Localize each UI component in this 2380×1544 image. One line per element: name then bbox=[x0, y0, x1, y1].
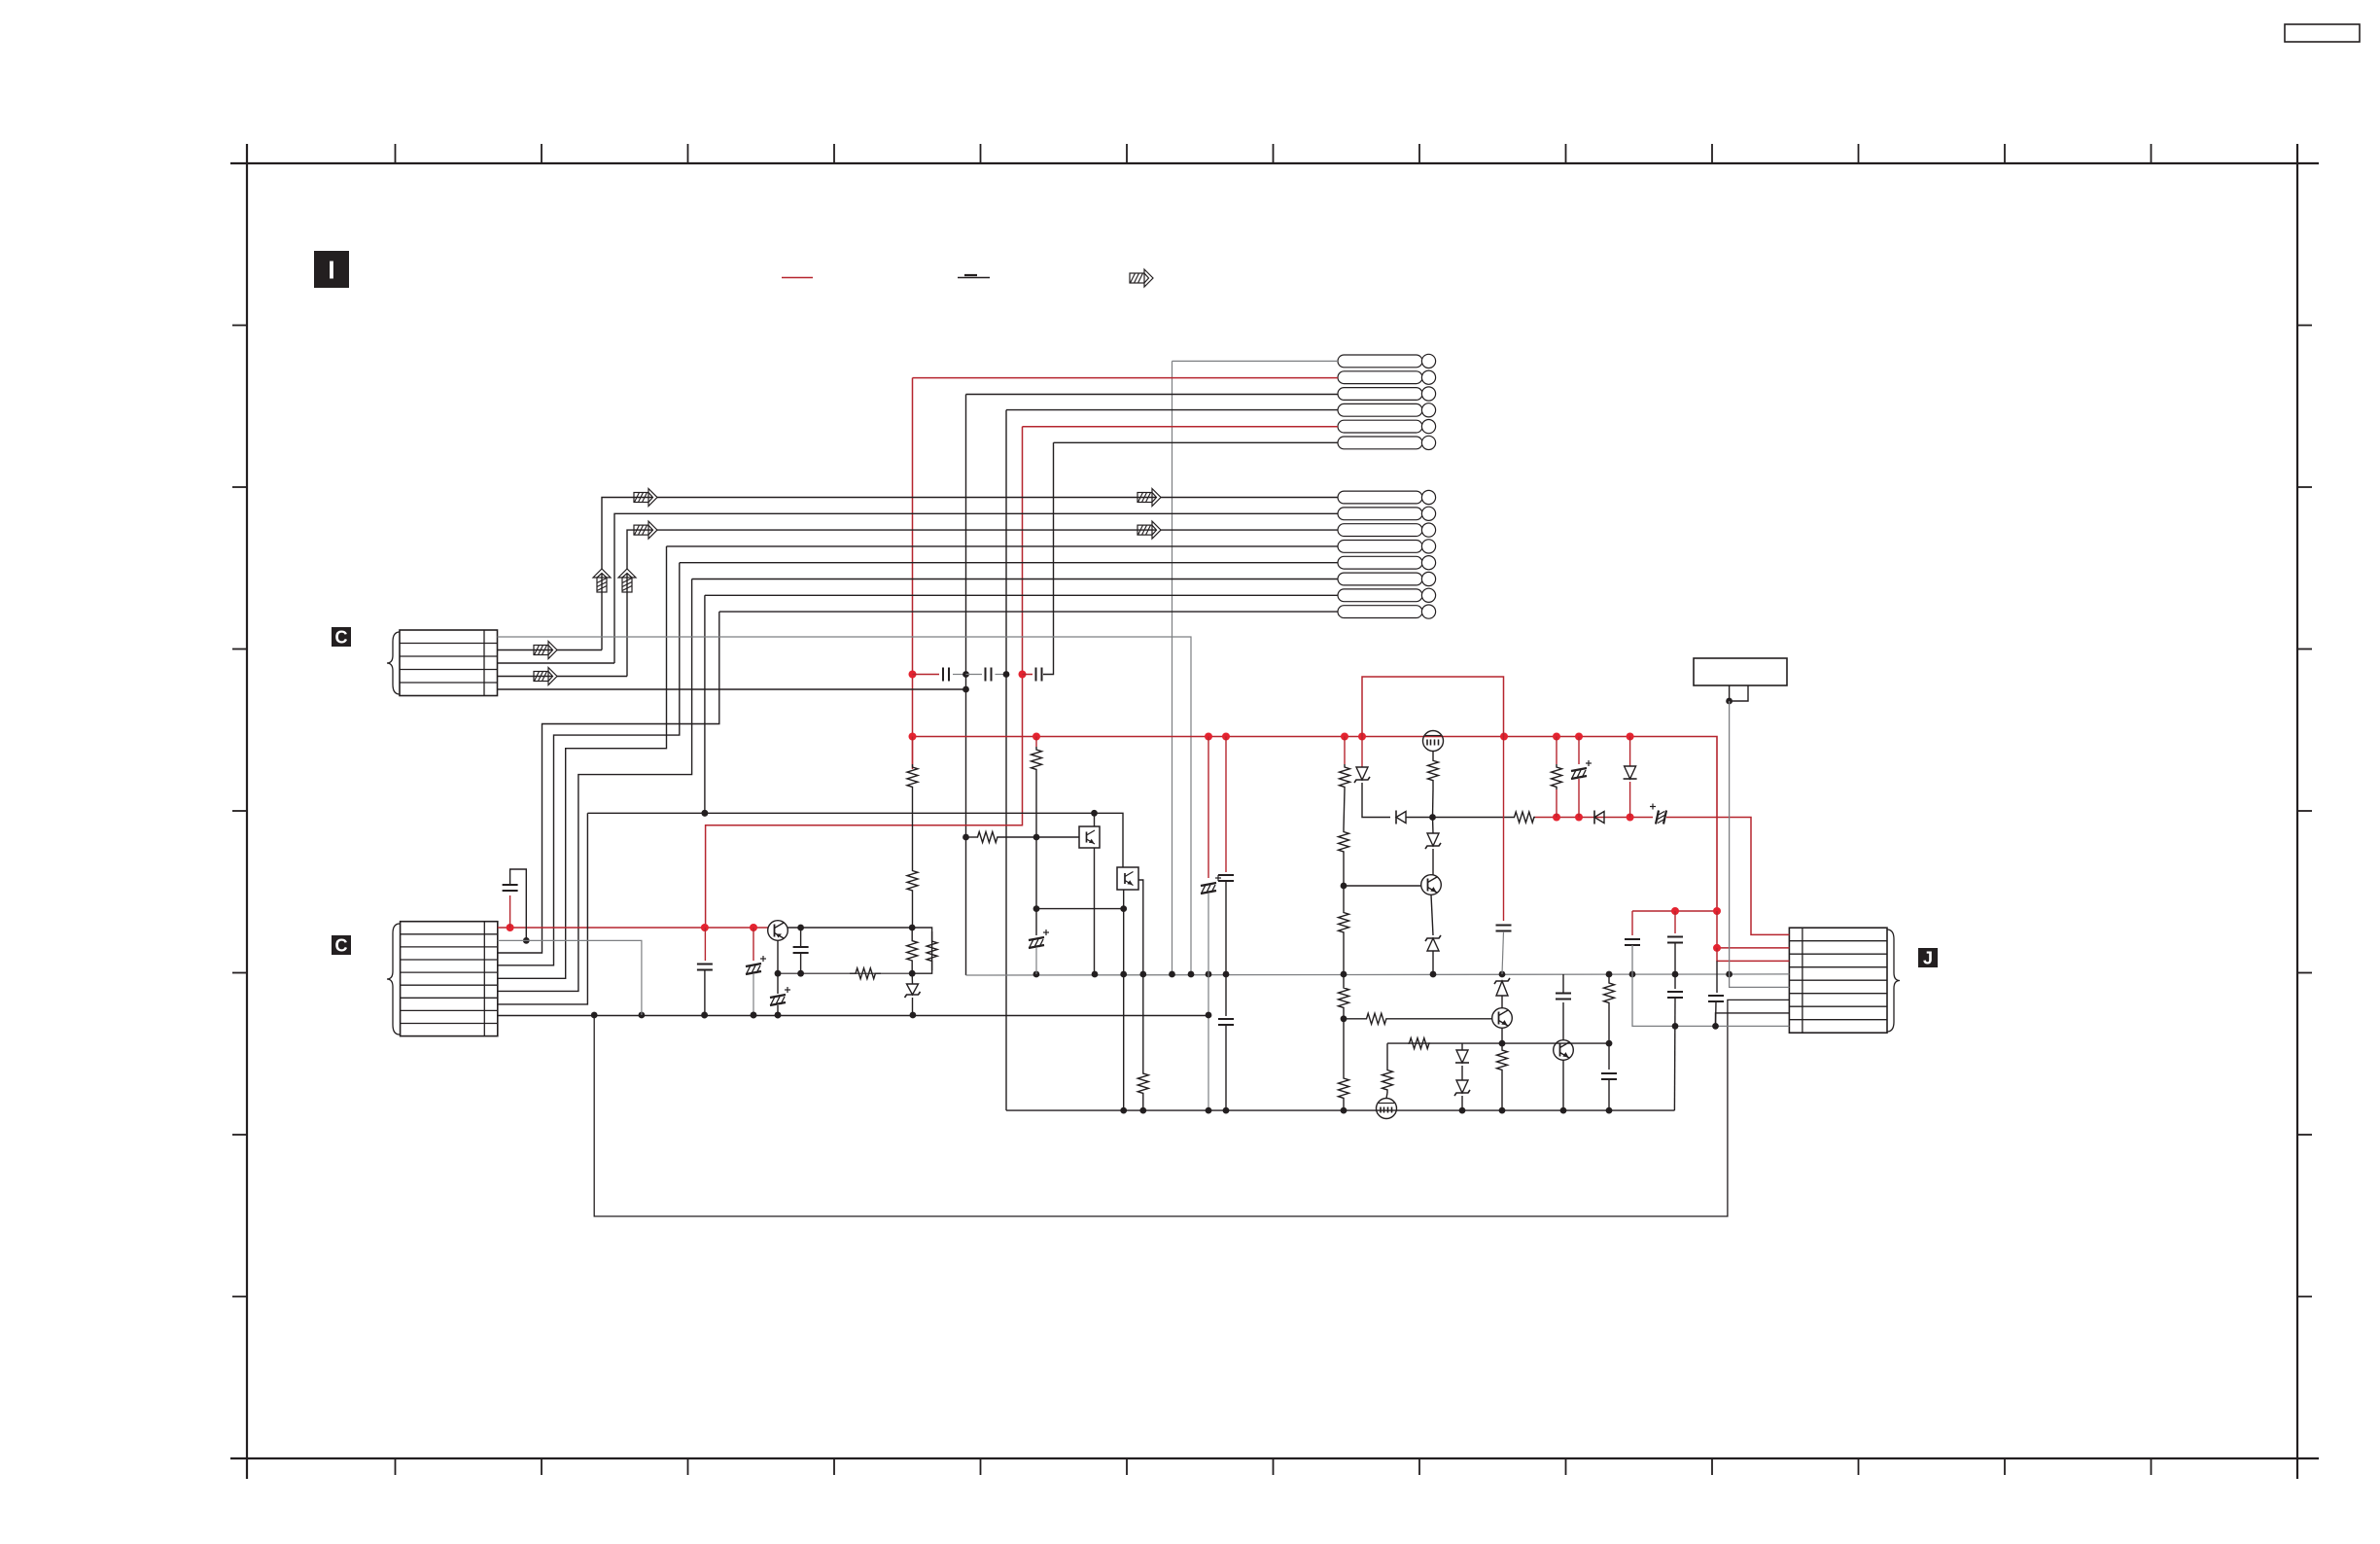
pill terminal group1 pin5 bbox=[1338, 420, 1436, 434]
arrow on g2p3 wire right bbox=[1137, 521, 1161, 539]
wire ladder e bbox=[1343, 974, 1345, 984]
junction gate rail b bbox=[1575, 814, 1583, 822]
wire gate rail red bbox=[1535, 817, 1653, 819]
bus junction 5 bbox=[1358, 733, 1366, 741]
wire cap C-e top bbox=[800, 928, 802, 947]
junction cap C-e bottom bbox=[797, 970, 804, 977]
wire ecap C-i bottom bbox=[1035, 948, 1037, 974]
wire pill g2p8 drop bbox=[498, 612, 719, 953]
wire bus to R1 (red) bbox=[912, 737, 914, 765]
electrolytic capacitor C-j bbox=[1201, 875, 1221, 894]
wire box2 bottom low bbox=[1123, 974, 1125, 1110]
arrow on g2p1 wire right bbox=[1137, 489, 1161, 507]
wire ecap C-h bottom bbox=[752, 974, 754, 1015]
wire x1655 low bbox=[1608, 1043, 1610, 1070]
red power bus bbox=[913, 737, 1718, 912]
junction gnd rail e bbox=[775, 1012, 782, 1019]
bottom rail bbox=[1006, 1109, 1674, 1111]
junction x1066 y935 bbox=[1033, 905, 1040, 912]
photocoupler transistor U1b bbox=[1117, 867, 1138, 890]
wire zener D1 lead bbox=[911, 973, 913, 984]
wire gate rail a bbox=[1406, 817, 1513, 819]
zener diode D2 bbox=[1354, 767, 1370, 783]
junction x1504 bottom bbox=[1459, 1107, 1466, 1114]
connector label C1 bbox=[332, 627, 351, 647]
wire box1 emitter bbox=[1094, 848, 1096, 974]
wire Q5 top bbox=[1562, 1002, 1564, 1040]
wire pill g1p4 vertical bbox=[1005, 410, 1007, 1111]
resistor R16 bbox=[1552, 764, 1562, 790]
junction ecap C-f bottom bbox=[775, 1012, 782, 1019]
wire T1 collector rail bbox=[787, 928, 931, 973]
gnd rail y1044 bbox=[498, 1015, 1208, 1017]
wire pill g2p4 drop bbox=[498, 546, 667, 978]
wire box pin a bbox=[1729, 685, 1731, 701]
bus tap x1066 bbox=[1032, 733, 1040, 741]
gray rail junction n bbox=[1672, 971, 1679, 978]
wire ladder b bbox=[1343, 855, 1345, 886]
wire box2 right bbox=[1138, 880, 1143, 974]
wire R16 low (red) bbox=[1556, 790, 1557, 818]
junction T1 emitter bbox=[775, 970, 782, 977]
arrow on C1 pin2 wire bbox=[534, 642, 557, 659]
diode D3 bbox=[1396, 811, 1406, 825]
transistor Q4 bbox=[1492, 1008, 1513, 1029]
wire ladder f bbox=[1343, 1011, 1345, 1019]
wire C-g bottom bbox=[704, 970, 706, 1015]
resistor R14 bbox=[1339, 1074, 1349, 1102]
pill terminal group1 pin3 bbox=[1338, 387, 1436, 401]
border frame bottom bbox=[230, 1457, 2319, 1459]
capacitor C-a bbox=[943, 668, 949, 682]
connector label C2 bbox=[332, 935, 351, 955]
pill terminal group2 pin7 bbox=[1338, 588, 1436, 602]
junction red pill5 riser cap bbox=[1019, 671, 1027, 679]
capacitor C-r bbox=[1625, 939, 1640, 945]
capacitor C-k bbox=[1218, 875, 1234, 881]
gray rail junction g bbox=[1206, 971, 1212, 978]
pill terminal group2 pin4 bbox=[1338, 540, 1436, 553]
capacitor C-d bbox=[503, 885, 518, 891]
wire cap C-e bot bbox=[800, 953, 802, 973]
gray rail junction k bbox=[1499, 971, 1506, 978]
wire ecap riser (red) bbox=[752, 928, 754, 961]
capacitor C-p bbox=[1556, 994, 1571, 1000]
junction gate rail mosfet chain bbox=[1429, 814, 1436, 821]
wire pill g1p5 (red) bbox=[1023, 426, 1339, 428]
capacitor C-b bbox=[986, 668, 992, 682]
wire cap loop bbox=[509, 895, 511, 928]
wire C-u low bbox=[1715, 1001, 1718, 1026]
junction C2p1 cap loop bbox=[507, 924, 514, 931]
gray rail junction b bbox=[1092, 971, 1099, 978]
junction red pill7 riser bbox=[701, 924, 709, 931]
bus junction 9 bbox=[1627, 733, 1634, 741]
svg-text:J: J bbox=[1923, 948, 1933, 967]
connector C1 bbox=[400, 630, 498, 696]
wire ladder h bbox=[1343, 1102, 1345, 1110]
resistor R8 bbox=[977, 832, 997, 843]
wire cap loop top bbox=[510, 869, 527, 940]
wire R21 to mosfet bbox=[1386, 1093, 1387, 1099]
wire bus to R16 (red) bbox=[1556, 737, 1557, 765]
junction x1765 pinrail bbox=[1712, 1023, 1719, 1030]
wire gate chain c bbox=[1432, 849, 1434, 875]
junction x1545 bottom bbox=[1499, 1107, 1506, 1114]
bus junction 2 bbox=[1205, 733, 1212, 741]
gray rail segment B bbox=[966, 974, 1790, 975]
junction x1655 rail bbox=[1606, 1040, 1613, 1047]
gray rail junction l bbox=[1606, 971, 1613, 978]
resistor R22 bbox=[1604, 974, 1615, 1011]
junction gnd rail b bbox=[639, 1012, 646, 1019]
transistor Q3 bbox=[1421, 875, 1442, 895]
wire Q4 base lead2 bbox=[1387, 1018, 1492, 1020]
junction cap chain pill3 riser bbox=[962, 671, 969, 678]
junction T1 rail a bbox=[797, 925, 804, 931]
wire pill g2p5 bbox=[680, 562, 1338, 564]
wire box1 collector bbox=[1094, 813, 1096, 826]
svg-text:C: C bbox=[335, 935, 348, 955]
resistor R11 bbox=[1339, 828, 1349, 855]
wire ladder g bbox=[1343, 1019, 1345, 1074]
wire bus to R7 (red) bbox=[1035, 737, 1037, 748]
junction Q4 emitter rail bbox=[1499, 1040, 1506, 1047]
wire C1 pin1 (gray) bbox=[498, 637, 1192, 974]
zener diode D1 bbox=[905, 984, 921, 998]
resistor R21 bbox=[1382, 1067, 1393, 1093]
gray rail junction j bbox=[1430, 971, 1437, 978]
wire collector rail y836 bbox=[587, 813, 1123, 867]
junction R3 bottom bbox=[909, 970, 916, 977]
connector J bbox=[1789, 928, 1887, 1033]
wire pill g1p1 vertical (gray) bbox=[1172, 361, 1173, 974]
bus junction 3 bbox=[1222, 733, 1230, 741]
wire D1 to gnd line bbox=[912, 998, 914, 1015]
terminal box bbox=[1694, 658, 1787, 685]
resistor R2 bbox=[907, 868, 918, 893]
wire x1261 low bbox=[1225, 881, 1227, 1016]
capacitor C-e bbox=[793, 947, 809, 953]
wire x1427 drop bbox=[1386, 1043, 1388, 1067]
wire pill g2p3 bbox=[627, 530, 1338, 676]
wire D2 to gate rail bbox=[1362, 783, 1390, 818]
wire C1 pin2 bbox=[498, 649, 603, 651]
resistor R9 bbox=[1137, 1056, 1148, 1110]
rail y1073 bbox=[1387, 1042, 1609, 1044]
gray rail junction f bbox=[1188, 971, 1195, 978]
junction y836 g2p7 bbox=[702, 810, 709, 817]
junction red riser cap chain bbox=[909, 671, 917, 679]
wire pill g1p6 bbox=[1054, 441, 1339, 443]
wire pill g2p8 bbox=[719, 611, 1338, 613]
capacitor C-q bbox=[1601, 1073, 1617, 1079]
wire gate rail to J (red) bbox=[1666, 818, 1789, 935]
capacitor C-s bbox=[1667, 937, 1683, 943]
gray rail junction h bbox=[1223, 971, 1230, 978]
junction R9 bottom bbox=[1139, 1107, 1146, 1114]
diode D5 bbox=[1624, 766, 1637, 779]
wire D10 low bbox=[1461, 1096, 1463, 1110]
mosfet Q2 bbox=[1377, 1099, 1397, 1119]
junction link y935 box2 bbox=[1120, 905, 1127, 912]
electrolytic capacitor C-n bbox=[1571, 760, 1592, 779]
wire gate chain b bbox=[1432, 818, 1435, 834]
junction D1 bottom bbox=[910, 1012, 917, 1019]
pill terminal group1 pin1 bbox=[1338, 354, 1436, 368]
wire cap chain red lead bbox=[913, 674, 940, 676]
wire D5 low (red) bbox=[1629, 782, 1631, 818]
junction x1261 bottom bbox=[1223, 1107, 1230, 1114]
gray rail junction o bbox=[1726, 971, 1732, 978]
wire C2 pin2 (gray) bbox=[498, 940, 642, 1015]
wire base rail bbox=[966, 836, 978, 838]
resistor R17 bbox=[1428, 752, 1439, 790]
electrolytic capacitor C-m bbox=[1650, 804, 1666, 825]
pill terminal group1 pin6 bbox=[1338, 436, 1436, 449]
resistor R20 bbox=[1408, 1038, 1430, 1049]
gray rail junction i bbox=[1341, 971, 1347, 978]
wire pill g2p4 bbox=[667, 545, 1339, 547]
wire x1766 low bbox=[1716, 961, 1718, 993]
arrow on g2p3 wire left bbox=[634, 521, 657, 539]
bus junction 4 bbox=[1341, 733, 1348, 741]
bus junction 6 bbox=[1500, 733, 1508, 741]
gray rail junction m bbox=[1629, 971, 1636, 978]
wire T1 emitter bbox=[777, 940, 779, 973]
junction R2 rail bbox=[909, 925, 916, 931]
zener diode D10 bbox=[1454, 1080, 1470, 1096]
arrow on C1 pin4 wire bbox=[534, 668, 557, 685]
wire box2 bottom bbox=[1123, 890, 1125, 974]
red bypass loop over mosfet bbox=[1362, 677, 1504, 737]
wire C1 pin4 bbox=[498, 676, 628, 678]
wire C2 pin1 red bbox=[498, 927, 768, 929]
junction Q3 base bbox=[1341, 883, 1347, 890]
junction box pins bbox=[1726, 698, 1732, 705]
mosfet Q1 on bus bbox=[1423, 731, 1444, 752]
junction Q5 bottom bbox=[1560, 1107, 1567, 1114]
wire J pin7 link bbox=[1716, 1013, 1790, 1027]
resistor R13 bbox=[1339, 984, 1349, 1011]
capacitor C-o bbox=[1496, 926, 1512, 931]
wire pill g1p2 (red) bbox=[913, 377, 1339, 379]
pill terminal group1 pin2 bbox=[1338, 370, 1436, 384]
junction base rail left bbox=[962, 834, 969, 841]
svg-text:C: C bbox=[335, 627, 348, 647]
wire cap chain mid1 bbox=[953, 674, 966, 676]
junction x1723 pinrail bbox=[1672, 1023, 1679, 1030]
wire ecap C-n low (red) bbox=[1578, 779, 1580, 818]
gray rail junction c bbox=[1120, 971, 1127, 978]
resistor R1 bbox=[907, 764, 918, 790]
legend red-wire sample bbox=[782, 277, 813, 279]
wire D7 low bbox=[1432, 951, 1434, 974]
pill terminal group2 pin3 bbox=[1338, 523, 1436, 537]
wire ladder d bbox=[1343, 935, 1345, 974]
junction base rail x1066 bbox=[1033, 834, 1040, 841]
wire pill g1p3 bbox=[966, 394, 1339, 396]
gray rail junction a bbox=[1033, 971, 1040, 978]
wire cap chain mid3 bbox=[996, 674, 1007, 676]
title block box bbox=[2285, 24, 2360, 42]
wire box chain (gray) bbox=[1730, 701, 1790, 987]
resistor R6 bbox=[850, 968, 881, 979]
resistor R10 bbox=[1340, 764, 1350, 790]
wire pill g1p1 (gray) bbox=[1172, 360, 1339, 362]
wire C-p top bbox=[1562, 974, 1564, 993]
wire x1723 red bbox=[1674, 911, 1676, 933]
junction ecap C-h bottom bbox=[751, 1012, 757, 1019]
junction gnd rail c bbox=[701, 1012, 708, 1019]
wire x1243 low bbox=[1207, 894, 1209, 1110]
legend b-line sample bbox=[958, 275, 990, 278]
gray rail segment A bbox=[778, 972, 912, 974]
wire x1504 drop bbox=[1461, 1043, 1463, 1050]
resistor R5 bbox=[927, 931, 937, 970]
wire x1066 ecap lead bbox=[1035, 909, 1037, 935]
wire pill g2p2 bbox=[614, 513, 1338, 663]
wire red drop chain low bbox=[704, 928, 706, 961]
wire link y935 bbox=[1036, 908, 1124, 910]
wire x1679 red bbox=[1631, 911, 1633, 935]
junction gnd rail drop bbox=[591, 1012, 598, 1019]
wire x1723 low bbox=[1673, 998, 1676, 1110]
wire R1 to R2 bbox=[912, 790, 914, 868]
border frame left bbox=[246, 144, 248, 1479]
zener diode D7 bbox=[1425, 935, 1441, 951]
wire x1547 low bbox=[1502, 931, 1504, 974]
electrolytic capacitor C-i bbox=[1029, 930, 1049, 948]
wire x1261 red bbox=[1225, 737, 1227, 873]
junction y937 b bbox=[1713, 907, 1721, 915]
connector label J bbox=[1918, 948, 1938, 967]
wire box2 right chain bbox=[1142, 974, 1144, 1056]
connector C2 bbox=[401, 922, 498, 1036]
wire gate chain a bbox=[1432, 790, 1435, 818]
wire pill g1p2 vertical (red) bbox=[912, 378, 914, 769]
wire bus drop to J (red) bbox=[1717, 911, 1789, 948]
gray rail junction d bbox=[1139, 971, 1146, 978]
junction y836 box1 bbox=[1091, 810, 1098, 817]
wire pill g1p5 vertical (red) bbox=[706, 427, 1023, 927]
wire pill g1p4 bbox=[1006, 409, 1338, 411]
wire ladder c bbox=[1343, 886, 1345, 909]
wire R2 to T1 rail bbox=[912, 893, 914, 928]
wire R19 low bbox=[1501, 1076, 1503, 1110]
arrow up on C1 pin4 riser bbox=[618, 569, 636, 592]
wire Q4 base lead bbox=[1344, 1018, 1365, 1020]
wire Q3 base bbox=[1344, 885, 1421, 887]
wire D8 to Q4 bbox=[1501, 996, 1503, 1008]
junction g2p7 red rail bbox=[702, 810, 709, 817]
transistor Q5 bbox=[1554, 1040, 1574, 1061]
wire Q4 emitter bbox=[1501, 1028, 1503, 1043]
wire C-q low bbox=[1608, 1079, 1610, 1110]
zener diode D8 bbox=[1494, 978, 1510, 996]
wire ecap C-n top (red) bbox=[1578, 737, 1580, 765]
wire Q3 emitter bbox=[1431, 895, 1433, 935]
junction Q4 base rail bbox=[1341, 1015, 1347, 1022]
electrolytic capacitor C-h bbox=[746, 956, 766, 974]
gray rail junction e bbox=[1169, 971, 1175, 978]
border frame right bbox=[2296, 144, 2298, 1479]
red rail y937 bbox=[1632, 910, 1717, 912]
bus junction 1 bbox=[909, 733, 917, 741]
wire C1 pin3 bbox=[498, 662, 615, 664]
resistor R7 bbox=[1032, 747, 1042, 772]
pill terminal group2 pin1 bbox=[1338, 490, 1436, 504]
junction y937 a bbox=[1671, 907, 1679, 915]
wire pill g1p3 vertical bbox=[965, 395, 967, 976]
transistor T1 (PNP) bbox=[768, 921, 788, 941]
wire pill g2p7 drop bbox=[704, 595, 706, 813]
svg-text:I: I bbox=[328, 255, 334, 284]
wire x1066 mid bbox=[1035, 837, 1037, 909]
wire x1243 red bbox=[1207, 737, 1209, 879]
wire pill g1p6 vertical bbox=[1043, 442, 1054, 674]
wire ecap C-f bottom bbox=[777, 1005, 779, 1015]
connector C2 brace bbox=[387, 924, 400, 1035]
wire D9-D10 bbox=[1461, 1066, 1463, 1080]
wire x1679 low bbox=[1632, 945, 1789, 1026]
wire pill g2p1 bbox=[602, 498, 1338, 650]
wire pill g2p6 drop bbox=[498, 579, 692, 992]
bus junction 7 bbox=[1553, 733, 1560, 741]
junction x1243 gnd bbox=[1206, 1012, 1212, 1019]
junction bus drop J2 bbox=[1713, 944, 1721, 952]
frame tick marks bbox=[232, 144, 2312, 1475]
wire bus to R10 (red) bbox=[1344, 737, 1346, 765]
junction ladder bottom bbox=[1341, 1107, 1347, 1114]
pill terminal group2 pin5 bbox=[1338, 556, 1436, 570]
wire pill g2p5 drop bbox=[498, 563, 680, 965]
resistor R15 bbox=[1513, 812, 1535, 823]
resistor R12 bbox=[1339, 909, 1349, 935]
wire diode D5 top (red) bbox=[1629, 737, 1631, 767]
arrow up on C1 pin2 riser bbox=[593, 569, 611, 592]
zener diode D6 bbox=[1425, 833, 1441, 849]
capacitor C-g bbox=[697, 965, 713, 970]
junction x1243 bottom bbox=[1206, 1107, 1212, 1114]
wire cap chain red lead2 bbox=[1023, 674, 1033, 676]
pill terminal group2 pin8 bbox=[1338, 605, 1436, 618]
connector J brace bbox=[1887, 930, 1900, 1032]
wire Q5 bottom bbox=[1562, 1060, 1564, 1110]
grid label I bbox=[314, 251, 349, 288]
pill terminal group2 pin2 bbox=[1338, 507, 1436, 520]
capacitor C-u bbox=[1708, 996, 1724, 1001]
wire R7 down bbox=[1035, 772, 1037, 837]
resistor R3 bbox=[907, 928, 918, 973]
resistor R18 bbox=[1365, 1013, 1387, 1024]
wire ladder a bbox=[1344, 790, 1345, 828]
resistor R19 bbox=[1497, 1043, 1508, 1076]
bus junction 8 bbox=[1575, 733, 1583, 741]
connector C1 brace bbox=[387, 632, 400, 694]
capacitor C-l bbox=[1218, 1019, 1234, 1025]
legend shielded-arrow sample bbox=[1130, 269, 1153, 287]
wire zener D2 top (red) bbox=[1361, 737, 1363, 768]
junction x1655 bottom bbox=[1606, 1107, 1613, 1114]
wire C1 pin5 bbox=[498, 688, 966, 690]
junction gnd rail d bbox=[751, 1012, 757, 1019]
wire gnd drop to bottom wire bbox=[594, 1000, 1789, 1216]
wire x1655 mid bbox=[1608, 1011, 1610, 1043]
diode D4 bbox=[1594, 811, 1604, 825]
junction gate rail a bbox=[1553, 814, 1560, 822]
wire box pin b bbox=[1730, 685, 1748, 701]
